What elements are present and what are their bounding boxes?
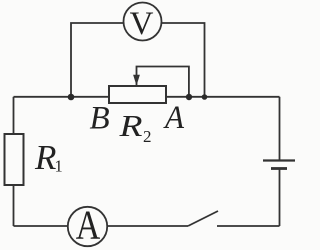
svg-text:B: B [90, 101, 110, 137]
svg-text:V: V [130, 6, 154, 42]
svg-text:R: R [34, 138, 56, 177]
svg-text:1: 1 [55, 157, 63, 176]
svg-text:A: A [163, 100, 185, 136]
svg-text:R: R [118, 108, 142, 143]
svg-text:2: 2 [143, 127, 152, 146]
svg-text:A: A [76, 202, 101, 248]
